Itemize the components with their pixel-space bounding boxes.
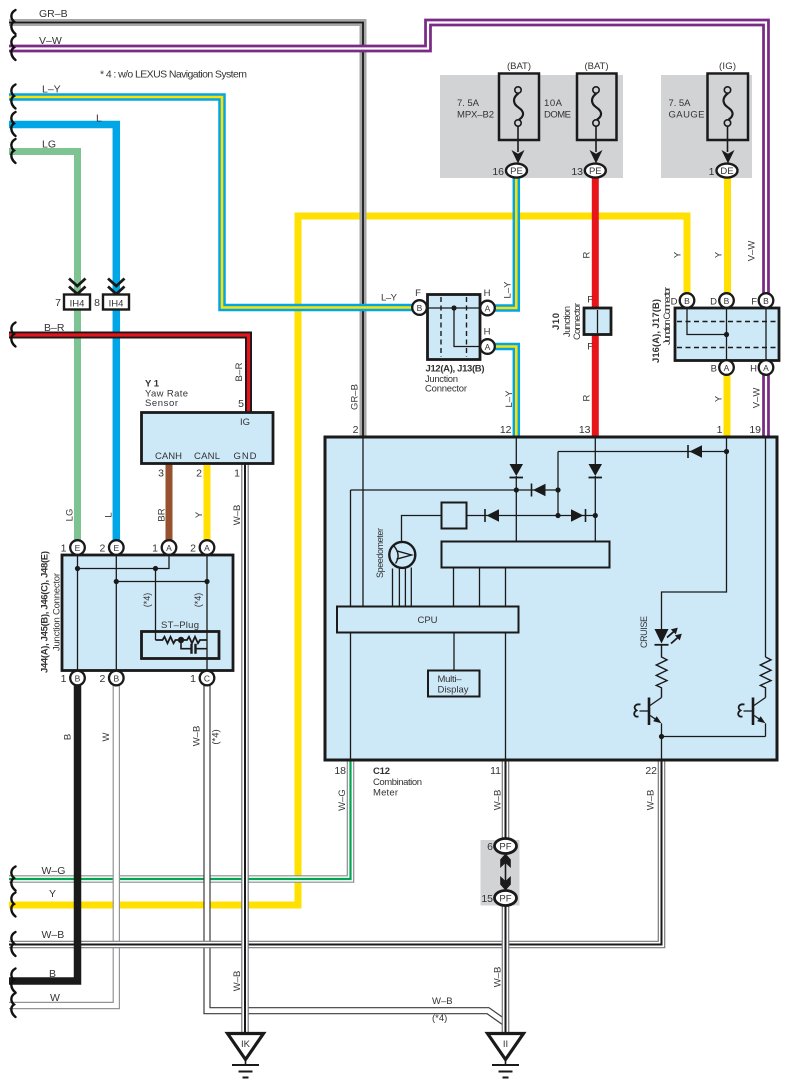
svg-text:W–G: W–G [337,789,348,811]
svg-text:Meter: Meter [373,788,398,799]
svg-text:CANL: CANL [194,451,220,462]
svg-text:L: L [96,113,102,125]
svg-text:B: B [763,296,769,306]
svg-text:W–B: W–B [493,790,504,811]
fuse 7.5A MPX-B2 [457,61,539,140]
ground II [488,1034,524,1078]
svg-text:Multi–: Multi– [438,674,463,685]
shield arrows into IH4 7 [69,279,86,295]
svg-text:3: 3 [158,468,164,480]
svg-text:10A: 10A [544,98,563,109]
svg-text:H: H [750,364,757,375]
fuse 10A DOME [544,61,617,140]
svg-text:W–B: W–B [232,971,243,992]
Multi-Display box [428,671,480,697]
svg-text:Y: Y [194,511,205,518]
svg-text:2: 2 [353,424,359,436]
svg-text:L–Y: L–Y [42,84,61,96]
wire L-Y (J12 A top to MPX-B2 fuse PE16) [490,174,516,308]
svg-text:Y: Y [714,251,725,258]
connector IH4 (pin 8) [94,295,129,310]
fuse DOME output arrow [590,126,603,163]
svg-text:A: A [204,543,210,553]
svg-text:LG: LG [42,139,56,151]
svg-text:W–B: W–B [192,726,203,747]
diode (right-pointing, middle row) [571,509,586,522]
svg-text:B: B [49,968,56,980]
svg-text:Connector: Connector [572,303,583,340]
svg-text:L–Y: L–Y [503,281,514,299]
wire L-Y (left edge to J12 B) [9,97,418,308]
top horizontal from pin 1 [558,451,727,453]
svg-text:L–Y: L–Y [504,390,515,408]
wire W-B *4 (J44 C down, right, diagonal into ground II) [207,685,506,1033]
svg-text:5: 5 [238,398,244,410]
svg-text:F: F [415,288,421,299]
diode (left-pointing, top row from pin 1) [688,445,702,458]
svg-text:IG: IG [240,417,250,428]
svg-text:J12(A), J13(B): J12(A), J13(B) [426,363,485,374]
connector 1 DE [709,164,738,178]
svg-text:* 4 : w/o LEXUS Navigation Sys: * 4 : w/o LEXUS Navigation System [100,69,247,81]
svg-text:CRUISE: CRUISE [639,616,649,648]
svg-text:Y: Y [49,888,56,900]
line from square to speedometer [402,516,442,542]
svg-text:W–B: W–B [42,929,65,941]
svg-text:B: B [711,364,717,375]
vertical node line [557,452,559,516]
PF intermediate connector panel [481,840,520,906]
svg-text:R: R [582,251,593,258]
diode (left-pointing, middle row) [485,509,499,522]
svg-text:W–B: W–B [493,967,504,988]
svg-text:CANH: CANH [155,451,182,462]
pin 1 internal drop to LED [662,438,727,629]
svg-text:H: H [484,288,491,299]
junction connector J44(A), J45(B), J46(C), J48(E) [40,540,234,685]
svg-text:1: 1 [190,673,196,685]
fuse block panel (IG fuse) [661,75,752,178]
junction connector J10 [551,295,611,353]
svg-text:R: R [582,394,593,401]
wire from pin 2 to CPU [362,438,364,607]
C12 Combination Meter box [325,437,777,760]
svg-text:W: W [101,732,112,741]
svg-text:22: 22 [645,765,657,777]
svg-text:J10: J10 [551,313,562,330]
wire pin 12 branch [515,438,517,542]
svg-text:(*4): (*4) [211,729,222,744]
junction connector J12(A), J13(B) [381,288,495,395]
svg-text:Junction Connector: Junction Connector [662,287,673,345]
svg-text:(*4): (*4) [432,1013,447,1024]
svg-text:F: F [751,297,757,308]
fuse GAUGE output arrow [722,126,735,163]
wire GR-B (left edge to C12 pin 2) [9,23,363,440]
svg-text:A: A [166,543,172,553]
svg-text:1: 1 [717,424,723,436]
svg-text:12: 12 [500,424,512,436]
pin 19 internal line [765,438,767,657]
svg-text:DE: DE [720,166,733,177]
svg-text:B: B [684,296,690,306]
svg-text:DOME: DOME [544,110,571,121]
wire W-G (C12 pin 18 to left edge) [9,760,351,879]
svg-text:W: W [50,992,60,1004]
svg-text:Combination: Combination [373,777,422,788]
svg-text:W–B: W–B [232,505,243,526]
wire pin 13 branch [594,438,596,542]
svg-text:L–Y: L–Y [381,293,398,304]
wire L-Y (J12 A bottom to C12 pin 12) [490,347,516,440]
J44 terminal circles [70,540,85,555]
fuse block panel (BAT fuses) [440,75,623,178]
svg-text:LG: LG [65,509,76,522]
svg-text:F: F [587,342,593,353]
Y1 Yaw Rate Sensor [142,362,274,479]
wire BR (Y1 CANH to J44 A1) [166,464,173,542]
svg-text:F: F [587,295,593,306]
speedometer gauge [375,528,415,578]
wire Y (DOME... GAUGE fuse DE to J16 B2) [724,174,731,296]
svg-text:V–W: V–W [39,35,62,47]
CRUISE LED [639,616,682,648]
wire break squiggles at left edge [11,10,15,1017]
svg-text:PE: PE [589,166,602,177]
svg-text:Sensor: Sensor [145,398,178,409]
shield arrows into IH4 8 [108,279,125,295]
resistor (LED side) [656,646,667,698]
svg-text:(BAT): (BAT) [585,61,609,72]
wire R (DOME fuse PE13 to C12 pin 13) [592,174,599,439]
fuse MPX-B2 output arrow [512,126,525,163]
svg-text:1: 1 [152,543,158,555]
wire W (J44 B2 to left edge) [9,685,116,1006]
ground IK [228,1034,264,1078]
connector 16 PE [492,164,527,178]
svg-text:(IG): (IG) [719,61,736,72]
svg-text:Speedometer: Speedometer [375,528,385,578]
svg-text:C12: C12 [373,766,390,777]
svg-text:W–B: W–B [432,996,453,1007]
svg-text:PF: PF [499,894,511,905]
connector 15 PF [481,891,516,906]
wire name labels (vertical) [63,241,763,992]
connector 13 PE [571,164,605,178]
svg-text:IH4: IH4 [70,299,85,310]
svg-text:Y: Y [714,395,725,402]
svg-text:A: A [724,363,730,373]
svg-text:H: H [484,327,491,338]
wire Y (J16 A to C12 pin 1) [724,372,731,439]
svg-text:B: B [724,296,730,306]
CPU box [337,607,519,633]
svg-text:B: B [113,674,119,684]
wire W-B (Y1 GND pin 1 to ground IK) [241,464,249,1034]
connector IH4 (pin 7) [55,295,90,310]
wire W-B (C12 pin 22 to left edge) [9,760,662,945]
svg-text:B–R: B–R [44,322,65,334]
wire L (left edge through IH4 8 to J44 E2) [9,125,116,542]
svg-text:E: E [75,543,81,553]
svg-text:V–W: V–W [752,388,763,409]
emitter rail [662,737,766,761]
resistor (pin 19 side) [760,657,771,698]
diode (left-pointing, on CPU bus) [532,484,546,497]
double arrow between PF6 and PF15 [500,854,511,891]
svg-text:Display: Display [438,685,469,696]
transistor Q1 [634,698,661,737]
svg-text:16: 16 [492,166,504,178]
svg-text:(*4): (*4) [193,593,203,608]
wire V-W (left edge, jog up, to J16 B; J16 A to C12 pin 19) [9,23,766,440]
svg-text:1: 1 [61,543,67,555]
svg-text:7: 7 [55,297,61,309]
svg-text:IK: IK [241,1039,251,1050]
svg-text:L: L [104,512,115,517]
svg-text:PE: PE [510,166,523,177]
svg-text:B: B [417,303,423,313]
wire Y (Y1 CANL to J44 A2) [204,464,211,542]
svg-text:(BAT): (BAT) [507,61,531,72]
svg-text:1: 1 [234,468,240,480]
svg-text:13: 13 [571,166,583,178]
svg-text:V–W: V–W [747,241,758,262]
svg-text:W–G: W–G [42,865,66,877]
svg-text:2: 2 [99,543,105,555]
wire W-B (C12 pin 11 to PF6) [502,760,510,840]
svg-text:Junction Connector: Junction Connector [52,573,63,651]
wire Y (yellow main: left edge / up / across to J16) [9,216,687,905]
svg-text:A: A [485,304,491,314]
svg-text:2: 2 [196,468,202,480]
svg-text:6: 6 [487,841,493,853]
svg-text:7. 5A: 7. 5A [457,98,480,109]
svg-text:II: II [503,1039,508,1050]
junction dots inside C12 [514,487,519,492]
svg-text:(*4): (*4) [142,593,152,608]
junction connector J16(A), J17(B) [651,287,779,375]
fuse 7.5A GAUGE [669,61,749,140]
svg-text:PF: PF [499,842,511,853]
speedometer bus lines [393,568,412,607]
svg-text:C: C [204,674,210,684]
svg-text:D: D [710,297,717,308]
svg-text:11: 11 [490,765,501,777]
diode (pin 13, pointing down) [589,464,603,478]
wire B (J44 B1 to left edge) [9,685,78,981]
svg-text:2: 2 [190,543,196,555]
horizontal diode row [467,515,596,517]
svg-text:J16(A), J17(B): J16(A), J17(B) [651,299,662,363]
svg-text:BR: BR [157,508,168,521]
bus line to CPU left [351,490,559,607]
connector 6 PF [487,839,516,854]
CPU output lines [351,633,506,761]
wire LG (left edge through IH4 7 to J44 E1) [9,152,78,542]
svg-text:Connector: Connector [425,384,467,395]
svg-text:MPX–B2: MPX–B2 [457,110,494,121]
svg-text:W–B: W–B [646,790,657,811]
svg-text:B–R: B–R [234,362,245,381]
svg-text:CPU: CPU [417,615,437,626]
diode (pin 12, pointing down) [510,464,524,478]
wire W-B (PF15 to ground II) [502,902,510,1033]
svg-text:IH4: IH4 [109,299,124,310]
small driver square [442,503,467,529]
svg-text:13: 13 [579,424,591,436]
svg-text:7. 5A: 7. 5A [669,98,692,109]
svg-text:15: 15 [481,893,493,905]
svg-text:2: 2 [99,673,105,685]
transistor Q2 [738,698,765,737]
svg-text:ST–Plug: ST–Plug [161,620,199,631]
svg-text:B: B [63,734,74,740]
svg-text:GAUGE: GAUGE [669,110,705,121]
svg-text:A: A [485,342,491,352]
gauge driver bar [442,542,610,568]
svg-text:A: A [763,363,769,373]
svg-text:1: 1 [709,166,715,178]
svg-text:GR–B: GR–B [350,384,361,410]
svg-text:1: 1 [61,673,67,685]
svg-text:B: B [75,674,81,684]
svg-text:GND: GND [234,451,257,462]
svg-text:E: E [113,543,119,553]
svg-text:GR–B: GR–B [39,8,68,20]
wire B-R (left edge to Y1 pin 5) [9,335,249,414]
svg-text:8: 8 [94,297,100,309]
svg-text:18: 18 [334,765,346,777]
svg-text:Y: Y [673,251,684,258]
svg-text:19: 19 [749,424,761,436]
svg-text:J44(A), J45(B), J46(C), J48(E): J44(A), J45(B), J46(C), J48(E) [40,551,51,673]
